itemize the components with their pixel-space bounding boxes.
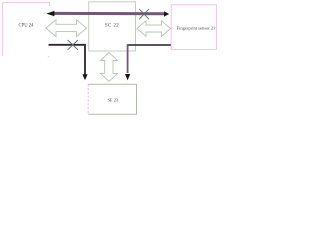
hollow double arrow SC-SE (vertical) bbox=[101, 52, 118, 81]
thick purple double arrow shaft (top) bbox=[51, 12, 165, 15]
hollow double arrow CPU-SC bbox=[46, 20, 87, 37]
black wire CPU to SE bbox=[49, 45, 86, 75]
box SE 23 (top/right/bottom solid) bbox=[88, 84, 136, 114]
svg-text:CPU 24: CPU 24 bbox=[19, 23, 35, 28]
X mark on black wire bbox=[68, 40, 78, 50]
svg-text:Fingerprint sensor 21: Fingerprint sensor 21 bbox=[177, 26, 216, 31]
box CPU 24 bottom-right corner dot bbox=[48, 56, 50, 58]
box CPU 24 (left+top edges and short right stub) bbox=[3, 3, 50, 56]
black wire arrowhead (down) bbox=[82, 74, 87, 80]
box SE 23 left edge (dashed pink) bbox=[87, 84, 89, 114]
box SC 22 bbox=[89, 2, 136, 51]
top arrow left black head bbox=[46, 11, 54, 16]
X mark on top arrow bbox=[139, 9, 149, 19]
hollow double arrow SC-Fingerprint bbox=[137, 21, 171, 37]
purple wire Fingerprint to SE (horizontal part) bbox=[128, 44, 171, 46]
purple wire vertical part bbox=[127, 44, 129, 73]
box Fingerprint sensor 21 bbox=[171, 5, 216, 50]
svg-text:SC 22: SC 22 bbox=[105, 24, 119, 29]
purple wire arrowhead (down) bbox=[125, 74, 130, 80]
top arrow right black head bbox=[164, 11, 169, 16]
svg-text:SE 23: SE 23 bbox=[107, 97, 118, 102]
